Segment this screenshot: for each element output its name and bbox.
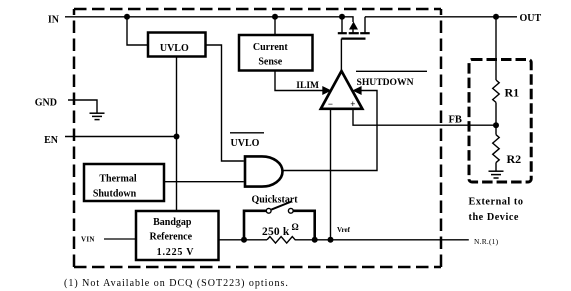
svg-text:Quickstart: Quickstart: [252, 195, 299, 206]
IC boundary dashed box: [74, 9, 441, 267]
wire IN to Current Sense: [274, 17, 276, 35]
label UVLO-bar (overlined): [230, 133, 264, 149]
node IN-CurrentSense junction: [272, 14, 278, 20]
svg-text:250 k: 250 k: [262, 226, 290, 238]
node Quickstart right junction: [312, 237, 318, 243]
svg-text:EN: EN: [44, 135, 59, 146]
svg-text:the Device: the Device: [469, 212, 519, 223]
svg-text:R2: R2: [507, 152, 522, 166]
resistor R2: [493, 135, 500, 163]
svg-text:Ω: Ω: [292, 222, 299, 232]
svg-text:Vref: Vref: [337, 226, 351, 234]
op-amp U1 error amplifier: [321, 71, 363, 109]
svg-text:Reference: Reference: [150, 232, 193, 243]
switch Quickstart: [244, 202, 315, 239]
wire EN: [65, 136, 177, 138]
wire Q1 source: [341, 17, 343, 33]
svg-text:FB: FB: [449, 114, 462, 125]
node Q1 source junction: [339, 14, 345, 20]
svg-text:Shutdown: Shutdown: [93, 188, 137, 199]
block UVLO: [148, 33, 206, 57]
label SHUTDOWN with overline: [356, 71, 427, 88]
gate U2 AND: [245, 156, 283, 186]
wire UVLO output to AND gate top input: [206, 45, 244, 161]
wire error amp inverting input to Vref: [330, 109, 332, 240]
node Bandgap output junction: [241, 237, 247, 243]
Q1 gate bar: [341, 37, 365, 39]
block Thermal Shutdown: [84, 164, 164, 201]
wire R2 to ground: [495, 163, 497, 171]
block Bandgap Reference: [136, 211, 219, 260]
svg-text:−: −: [328, 99, 333, 109]
wire OUT rail: [365, 16, 517, 18]
wire Current Sense to ILIM input: [275, 71, 324, 91]
svg-text:SHUTDOWN: SHUTDOWN: [357, 77, 414, 88]
wire Q1 drain: [364, 17, 366, 33]
wire FB node to R2: [495, 125, 497, 135]
wire SHUTDOWN from AND gate output: [283, 91, 377, 171]
wire Vref rail: [219, 239, 268, 241]
ground symbol (divider): [489, 171, 504, 178]
svg-text:+: +: [350, 99, 355, 109]
wire VIN to Bandgap: [104, 238, 136, 240]
svg-text:Bandgap: Bandgap: [153, 217, 192, 228]
node Vref-erroramp junction: [328, 237, 334, 243]
svg-text:OUT: OUT: [520, 13, 542, 24]
wire Q1 bulk: [342, 17, 353, 22]
resistor R1: [493, 80, 500, 102]
ground symbol (GND pin): [90, 113, 105, 119]
arrow ILIM into error amp: [322, 86, 331, 95]
svg-text:VIN: VIN: [81, 235, 95, 243]
svg-text:ILIM: ILIM: [296, 81, 319, 91]
resistor 250k: [267, 237, 295, 244]
node OUT junction: [493, 14, 499, 20]
wire R1 to FB node: [495, 102, 497, 125]
svg-text:GND: GND: [35, 98, 57, 109]
svg-text:UVLO: UVLO: [160, 43, 189, 54]
arrow SHUTDOWN into error amp: [352, 86, 361, 95]
wire GND stub: [68, 100, 97, 113]
node FB junction: [493, 122, 499, 128]
svg-text:(1) Not Available on DCQ (SOT2: (1) Not Available on DCQ (SOT223) option…: [64, 278, 289, 289]
svg-text:IN: IN: [48, 14, 60, 25]
wire OUT to R1: [495, 17, 497, 80]
svg-text:Sense: Sense: [258, 57, 282, 68]
Q1 channel bars: [338, 32, 370, 34]
transistor Q1 PMOS pass element: [338, 14, 370, 71]
svg-text:R1: R1: [505, 86, 520, 100]
wire error amp non-inverting input to FB: [353, 109, 496, 125]
svg-text:Thermal: Thermal: [99, 173, 136, 184]
arrow Q1 bulk: [349, 22, 358, 30]
svg-text:External to: External to: [469, 197, 524, 208]
svg-text:UVLO: UVLO: [231, 138, 260, 149]
wire IN rail: [65, 16, 342, 18]
wire IN to UVLO input: [127, 17, 148, 45]
node EN-UVLO junction: [174, 134, 180, 140]
block Current Sense: [239, 35, 313, 71]
svg-text:1.225 V: 1.225 V: [157, 247, 195, 258]
node IN-UVLO junction: [124, 14, 130, 20]
svg-text:Current: Current: [253, 42, 288, 53]
svg-text:N.R.(1): N.R.(1): [474, 237, 499, 246]
wire Thermal Shutdown to AND gate bottom input: [164, 181, 244, 183]
wire Q1 gate lead: [340, 39, 342, 71]
external divider dashed box: [469, 60, 531, 183]
wire UVLO bottom to Bandgap: [176, 57, 178, 212]
